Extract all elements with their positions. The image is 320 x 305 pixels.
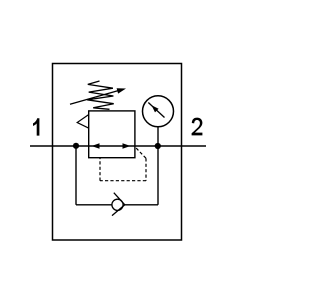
check valve seat (112, 193, 125, 216)
pilot line dashed bottom (100, 180, 146, 182)
gauge needle shaft (148, 103, 164, 118)
flow arrow right (pointing right) (123, 143, 131, 148)
gauge connector wire (157, 127, 159, 146)
main flow line 1-2 (30, 145, 206, 147)
junction node right (155, 143, 161, 149)
junction node left (73, 143, 79, 149)
bypass wire left vertical (75, 146, 77, 205)
spring (adjustable regulator spring) (87, 81, 114, 109)
check valve ball (112, 199, 123, 210)
port label 1 (33, 118, 39, 135)
gauge needle head (152, 105, 159, 112)
pilot line dashed left vertical (99, 158, 101, 181)
adjustment arrow shaft (70, 90, 120, 104)
pressure gauge body (143, 96, 174, 127)
bypass wire right vertical (157, 146, 159, 205)
regulator valve body square (89, 111, 135, 158)
adjustment arrow head (117, 88, 126, 93)
pilot line dashed right vertical (145, 158, 147, 180)
pilot line dashed diagonal (136, 148, 146, 158)
port label 2 (192, 118, 203, 136)
flow arrow left (pointing left) (92, 143, 100, 148)
bypass wire bottom right (125, 204, 158, 206)
exhaust triangle on valve left edge (77, 115, 89, 129)
enclosure box (53, 64, 182, 241)
bypass wire bottom left (76, 204, 112, 206)
